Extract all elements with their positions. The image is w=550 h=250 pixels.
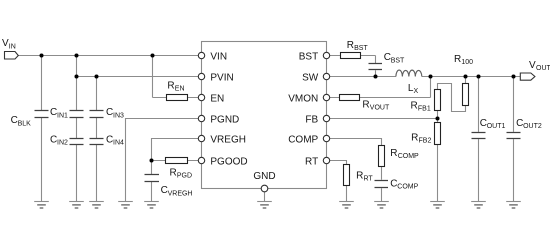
wire C_VREGH branch — [151, 161, 153, 202]
junction VREGH/R_PGD — [150, 159, 154, 163]
pin GND — [261, 185, 268, 192]
wire GND pin drop — [264, 192, 266, 202]
wire FB node link — [437, 110, 439, 123]
junction PVIN/C_IN3 — [95, 75, 99, 79]
resistor R_PGD — [166, 158, 188, 164]
wire VMON net — [330, 77, 431, 98]
svg-text:PVIN: PVIN — [210, 73, 233, 84]
inductor LX coil — [396, 70, 422, 76]
wire VREGH branch — [152, 139, 199, 161]
svg-text:R: R — [390, 148, 397, 159]
svg-text:BLK: BLK — [18, 120, 32, 127]
ground (C_OUT2) — [506, 202, 521, 209]
ground (C_BLK) — [34, 202, 49, 209]
junction VOUT/C_OUT2 — [512, 75, 516, 79]
svg-text:BST: BST — [299, 52, 318, 63]
node junction dots — [40, 54, 516, 163]
svg-text:OUT: OUT — [536, 65, 550, 72]
resistor R_FB2 — [435, 123, 441, 145]
pin EN — [198, 94, 204, 100]
wire COMP branch — [330, 139, 382, 202]
svg-text:IN4: IN4 — [113, 140, 124, 147]
ground (C_COMP) — [374, 202, 389, 209]
node FB — [436, 117, 440, 121]
svg-text:VOUT: VOUT — [370, 104, 390, 111]
svg-text:VMON: VMON — [288, 94, 318, 105]
junction SW/C_BST — [374, 75, 378, 79]
svg-text:SW: SW — [302, 73, 319, 84]
capacitor C_BST — [369, 64, 383, 70]
junction VIN/C_BLK — [40, 54, 44, 58]
pin PGOOD — [198, 157, 204, 163]
capacitor C_BLK — [35, 111, 49, 118]
svg-text:COMP: COMP — [398, 153, 419, 160]
pin PGND — [198, 115, 204, 121]
svg-text:OUT1: OUT1 — [487, 123, 506, 130]
resistor R_EN — [167, 95, 188, 101]
pin VIN — [198, 52, 204, 58]
svg-text:BST: BST — [354, 45, 368, 52]
svg-text:IN2: IN2 — [57, 140, 68, 147]
svg-text:IN: IN — [9, 43, 16, 50]
pin VREGH — [198, 135, 204, 141]
svg-text:EN: EN — [175, 85, 185, 92]
wire BST net — [330, 56, 376, 77]
svg-text:FB1: FB1 — [418, 105, 431, 112]
wire RT branch — [330, 161, 347, 202]
pin SW — [323, 73, 329, 79]
svg-text:R: R — [362, 99, 369, 110]
svg-text:R: R — [167, 80, 174, 91]
capacitor C_OUT2 — [507, 133, 521, 139]
svg-text:R: R — [454, 54, 461, 65]
wire R_FB2 to ground — [437, 145, 439, 202]
pin FB — [323, 115, 329, 121]
svg-text:PGD: PGD — [177, 172, 192, 179]
output tag V_OUT — [520, 73, 535, 80]
svg-text:IN3: IN3 — [113, 112, 124, 119]
input tag V_IN — [5, 52, 19, 60]
svg-text:R: R — [347, 40, 354, 51]
wire C_OUT2 branch — [513, 77, 515, 202]
svg-text:VREGH: VREGH — [210, 135, 246, 146]
svg-text:VIN: VIN — [210, 52, 227, 63]
junction VOUT/R_100 — [464, 75, 468, 79]
capacitor C_OUT1 — [472, 133, 486, 139]
junction PVIN/C_IN1 — [75, 75, 79, 79]
svg-text:R: R — [170, 167, 177, 178]
ground (PGND) — [118, 202, 133, 209]
resistor R_BST — [341, 53, 361, 59]
wire VIN net top — [18, 55, 198, 57]
wire R_100 to R_FB1 link — [438, 77, 466, 112]
capacitor C_IN1 — [70, 111, 84, 118]
svg-text:FB: FB — [305, 115, 318, 126]
capacitor C_VREGH — [145, 175, 160, 182]
svg-text:R: R — [411, 100, 418, 111]
wire PGOOD row — [152, 160, 199, 162]
svg-text:R: R — [356, 171, 363, 182]
wire SW net — [330, 76, 521, 78]
wire PVIN net — [77, 76, 199, 78]
ground (C_OUT1) — [471, 202, 486, 209]
ground (C_VREGH) — [144, 202, 159, 209]
svg-text:BST: BST — [391, 57, 405, 64]
junction VIN/C_IN1 — [75, 54, 79, 58]
svg-text:RT: RT — [364, 176, 374, 183]
wire C_IN1/C_IN2 branch — [76, 56, 78, 202]
wire FB net — [330, 118, 438, 120]
ground (GND pin) — [257, 202, 272, 209]
svg-text:OUT2: OUT2 — [523, 123, 542, 130]
svg-text:PGND: PGND — [210, 115, 239, 126]
svg-text:RT: RT — [305, 157, 318, 168]
resistor R_RT — [344, 165, 350, 186]
ground (R_FB2) — [430, 202, 445, 209]
svg-text:IN1: IN1 — [57, 112, 68, 119]
IC U1 body — [202, 42, 327, 189]
svg-text:COMP: COMP — [397, 183, 418, 190]
svg-text:EN: EN — [210, 94, 224, 105]
capacitor C_IN3 — [90, 111, 104, 118]
svg-text:PGOOD: PGOOD — [210, 157, 247, 168]
wire PGND branch — [126, 119, 199, 202]
pin VMON — [323, 94, 329, 100]
svg-text:R: R — [411, 133, 418, 144]
wire EN branch — [153, 56, 199, 98]
capacitor C_IN4 — [90, 139, 104, 145]
resistor R_COMP — [379, 146, 385, 167]
svg-text:GND: GND — [253, 171, 275, 182]
pin RT — [323, 157, 329, 163]
resistor R_VOUT — [340, 95, 360, 101]
capacitor C_IN2 — [70, 139, 84, 145]
svg-text:COMP: COMP — [288, 135, 318, 146]
junction LX/R_VOUT — [429, 75, 433, 79]
wire C_OUT1 branch — [478, 77, 480, 202]
junction VIN/R_EN — [151, 54, 155, 58]
pin circles — [198, 52, 329, 192]
wire C_BLK branch — [41, 56, 43, 202]
junction VOUT/C_OUT1 — [477, 75, 481, 79]
pin BST — [323, 52, 329, 58]
svg-text:V: V — [529, 60, 536, 71]
pin PVIN — [198, 73, 204, 79]
svg-text:VREGH: VREGH — [168, 190, 193, 197]
ground (R_RT) — [339, 202, 354, 209]
svg-text:X: X — [414, 88, 419, 95]
capacitor C_COMP — [375, 181, 389, 188]
wire C_IN3/C_IN4 branch — [96, 77, 98, 202]
resistor R_FB1 — [435, 90, 441, 111]
resistor R_100 — [463, 84, 469, 106]
ground (C_IN4) — [89, 202, 104, 209]
svg-text:FB2: FB2 — [419, 138, 432, 145]
svg-text:100: 100 — [461, 59, 473, 66]
ground (C_IN2) — [69, 202, 84, 209]
pin COMP — [323, 135, 329, 141]
